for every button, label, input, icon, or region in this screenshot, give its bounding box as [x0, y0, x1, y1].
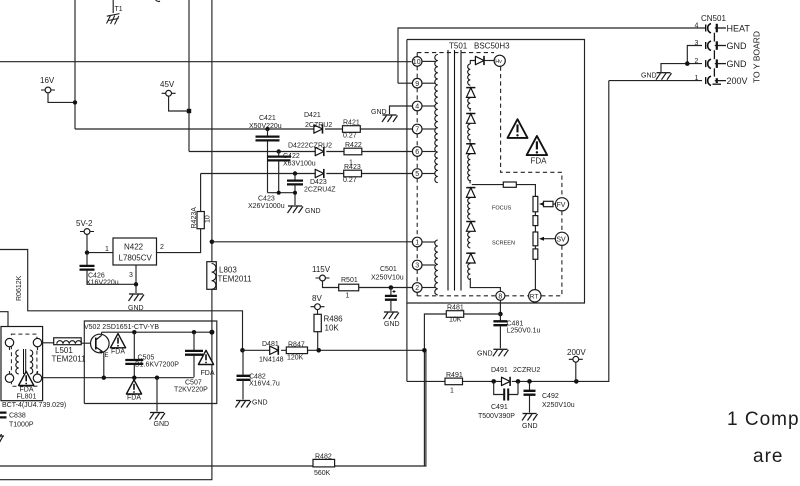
node dots R491 row [491, 379, 578, 384]
connector pin4 [695, 23, 751, 34]
winding secondary s6 [468, 232, 471, 248]
svg-text:1: 1 [450, 388, 454, 395]
wire 5V-2 down [87, 234, 113, 252]
node junction pin3-pin2 [685, 61, 690, 66]
node junction C501 [389, 285, 394, 290]
resistor divider r1 [533, 196, 538, 211]
svg-text:T1: T1 [115, 6, 123, 13]
svg-text:4: 4 [415, 104, 419, 111]
svg-text:X250V10u: X250V10u [542, 402, 575, 409]
svg-text:X16V4.7u: X16V4.7u [249, 381, 280, 388]
node HV [494, 55, 505, 66]
wire line350 [243, 349, 425, 351]
svg-text:45V: 45V [160, 80, 175, 89]
svg-text:GND: GND [477, 351, 493, 358]
svg-text:8: 8 [498, 293, 502, 300]
ground pin4 [371, 109, 398, 122]
resistor R481 [446, 305, 464, 324]
pin 6 [412, 147, 435, 157]
svg-text:R481: R481 [447, 305, 464, 312]
ground C492 [522, 414, 538, 431]
capacitor C421 [249, 115, 282, 193]
svg-text:115V: 115V [312, 265, 331, 274]
wire top horizontal rail to pin 10 [0, 61, 412, 63]
diode HV rectifier [475, 56, 484, 65]
svg-text:T500V390P: T500V390P [478, 413, 515, 420]
inductor L501 [52, 338, 87, 364]
svg-text:FDA: FDA [531, 157, 548, 166]
node junction pin8 [498, 312, 503, 317]
wire to SV [544, 238, 555, 240]
svg-text:R0612K: R0612K [16, 275, 23, 301]
node junction line350 right [422, 348, 427, 353]
wire pin9 stub [398, 82, 412, 84]
svg-text:C492: C492 [542, 393, 559, 400]
svg-text:10K: 10K [325, 324, 340, 333]
svg-text:8V: 8V [312, 294, 322, 303]
warning triangle big2 FDA [527, 136, 548, 166]
svg-text:10: 10 [205, 215, 212, 223]
svg-text:C491: C491 [491, 404, 508, 411]
svg-text:GND: GND [154, 421, 170, 428]
node junction pin3 [134, 282, 138, 286]
svg-text:R501: R501 [341, 277, 358, 284]
wire R501 to pin2 [359, 287, 413, 289]
svg-text:N422: N422 [124, 243, 144, 252]
capacitor C423 [248, 171, 303, 210]
svg-text:T501: T501 [449, 42, 468, 51]
connector pin1 [609, 75, 748, 86]
svg-text:GND: GND [727, 41, 748, 51]
winding secondary s3 [468, 124, 471, 143]
svg-text:C422: C422 [283, 153, 300, 160]
svg-text:X250V10u: X250V10u [371, 275, 404, 282]
svg-text:X50V220u: X50V220u [249, 123, 282, 130]
wire bus 241.8 to pin1 [212, 241, 413, 243]
svg-text:FDA: FDA [201, 370, 215, 377]
svg-text:HEAT: HEAT [727, 24, 751, 34]
inductor L803 [207, 262, 252, 290]
svg-text:are: are [753, 446, 783, 467]
svg-text:L250V0.1u: L250V0.1u [507, 328, 541, 335]
svg-text:B1.6KV7200P: B1.6KV7200P [135, 362, 179, 369]
resistor focus series [503, 182, 516, 187]
node junction R486 [316, 348, 321, 353]
svg-text:R423: R423 [344, 164, 361, 171]
resistor divider r4 [533, 249, 538, 259]
svg-text:R491: R491 [446, 372, 463, 379]
svg-text:R482: R482 [315, 454, 332, 461]
svg-text:200V: 200V [567, 348, 586, 357]
svg-text:4: 4 [695, 23, 699, 30]
svg-text:C421: C421 [259, 115, 276, 122]
wire 115V to R501 [323, 281, 339, 288]
capacitor C505 [125, 332, 179, 377]
wire secondary top [470, 61, 475, 65]
node 115V test point [312, 265, 331, 281]
node 8V test point [311, 294, 325, 310]
svg-text:E: E [105, 353, 109, 359]
resistor FV tap [544, 201, 554, 206]
winding secondary [468, 64, 471, 85]
connector pin2 [661, 58, 747, 72]
svg-text:C482: C482 [249, 374, 266, 381]
capacitor C507 [174, 332, 208, 393]
box T501 outer [407, 40, 585, 304]
connector pin3 [687, 40, 747, 64]
svg-text:1: 1 [346, 293, 350, 300]
svg-text:SCREEN: SCREEN [492, 241, 515, 247]
capacitor C492 [524, 381, 575, 412]
svg-text:0.27: 0.27 [343, 133, 357, 140]
resistor R486 [314, 310, 343, 351]
wire bottom line A [0, 350, 426, 466]
svg-text:GND: GND [522, 423, 538, 430]
wire focus tap [472, 184, 504, 186]
transistor V502 [91, 334, 110, 359]
diode D422 [315, 147, 324, 156]
wire divider 2-3 [534, 226, 536, 232]
wire fragment top edge [156, 0, 161, 2]
diode secondary 2 [466, 114, 475, 124]
node junction 5V-2 [85, 250, 89, 254]
resistor R482 [313, 454, 335, 478]
transformer FL801 [1, 327, 43, 401]
ground V502 box [150, 413, 170, 429]
node junction 45V [187, 109, 191, 113]
svg-text:X26V1000u: X26V1000u [248, 203, 285, 210]
warning triangle V502 [110, 334, 125, 356]
svg-text:CN501: CN501 [701, 14, 726, 23]
wire W1 left loop [0, 250, 243, 351]
wire to HV [484, 60, 494, 62]
transformer core [448, 50, 461, 291]
wire W2 left to FL801 [0, 312, 8, 339]
svg-text:GND: GND [384, 321, 400, 328]
node junction D481 [240, 348, 245, 353]
svg-text:2CZRU2: 2CZRU2 [305, 122, 332, 129]
connector spine [713, 33, 715, 77]
svg-text:16V: 16V [40, 76, 55, 85]
winding primary upper [435, 55, 438, 183]
resistor R491 [445, 372, 463, 395]
wire FL801 to L501 [42, 342, 54, 344]
diode D491 [491, 367, 540, 386]
ground C501 [383, 312, 399, 328]
pin 10 [412, 57, 435, 67]
svg-text:R486: R486 [324, 315, 344, 324]
node junction 16V [73, 100, 77, 104]
svg-text:SV: SV [556, 237, 566, 244]
winding primary lower [435, 240, 438, 295]
winding secondary s7 [468, 264, 471, 280]
wire 16V to x75 rail [48, 93, 75, 103]
svg-text:3: 3 [415, 263, 419, 270]
node rail dots [132, 330, 214, 335]
wire N422 pin3 [135, 265, 137, 293]
dashed FV-SV [561, 211, 563, 232]
svg-text:C507: C507 [185, 380, 202, 387]
svg-text:2: 2 [160, 244, 164, 251]
svg-text:GND: GND [727, 59, 748, 69]
svg-text:0.27: 0.27 [343, 177, 357, 184]
svg-text:D481: D481 [262, 341, 279, 348]
regulator N422 L7805CV [105, 238, 164, 279]
svg-text:C423: C423 [258, 196, 275, 203]
pin 1 [412, 237, 435, 247]
svg-text:C481: C481 [507, 321, 524, 328]
wire box top rail [102, 331, 212, 333]
capacitor C426 [80, 253, 137, 287]
svg-text:T2KV220P: T2KV220P [174, 387, 208, 394]
svg-text:TEM2011: TEM2011 [52, 355, 87, 364]
svg-text:560K: 560K [314, 470, 331, 477]
resistor R423 [343, 164, 362, 184]
node 200V test point [567, 348, 586, 362]
svg-text:Hv: Hv [495, 59, 502, 65]
svg-text:D491: D491 [491, 367, 508, 374]
winding secondary s4 [468, 154, 471, 183]
wire row1 129 [75, 128, 412, 130]
diode secondary 5 [466, 222, 475, 232]
svg-text:GND: GND [641, 73, 657, 80]
svg-text:3: 3 [695, 40, 699, 47]
svg-text:1: 1 [695, 75, 699, 82]
svg-text:FDA: FDA [127, 395, 141, 402]
svg-text:TO Y BOARD: TO Y BOARD [752, 31, 762, 83]
warning triangle big1 [507, 119, 527, 138]
ground connector [641, 73, 672, 80]
wire divider 1-2 [534, 212, 536, 216]
svg-text:2: 2 [695, 58, 699, 65]
svg-text:D4222CZRU2: D4222CZRU2 [288, 143, 332, 150]
dashed HV path [501, 67, 562, 198]
pin 7 [412, 124, 435, 134]
node RT [529, 290, 541, 302]
diode secondary 1 [466, 88, 475, 98]
node FV [555, 198, 568, 211]
wire row2 151.5 [189, 151, 412, 153]
svg-text:R422: R422 [345, 142, 362, 149]
svg-text:GND: GND [252, 400, 268, 407]
wire collector [101, 332, 103, 335]
svg-text:GND: GND [305, 208, 321, 215]
svg-text:R847: R847 [288, 342, 305, 349]
capacitor C481 [493, 314, 540, 348]
ground T1 [107, 0, 123, 25]
box V502 block [84, 321, 217, 404]
svg-text:V502 2SD1651-CTV-YB: V502 2SD1651-CTV-YB [84, 324, 159, 331]
svg-text:R421: R421 [343, 120, 360, 127]
svg-text:10K: 10K [449, 317, 462, 324]
wire row3 173.5 [201, 173, 413, 175]
dashed pin column [416, 53, 418, 283]
svg-text:L803: L803 [219, 266, 237, 275]
svg-text:1N4148: 1N4148 [259, 357, 284, 364]
svg-text:1: 1 [415, 240, 419, 247]
wire tap to divider [516, 185, 535, 197]
wire vertical x189 [188, 0, 190, 152]
svg-text:10: 10 [413, 59, 421, 66]
dashed SV down [561, 246, 563, 296]
svg-text:9: 9 [415, 81, 419, 88]
wire to FV [553, 203, 555, 205]
wire vertical left x75 [74, 0, 76, 129]
svg-text:FDA: FDA [20, 387, 34, 394]
arrow SV tap [539, 237, 544, 241]
wire R481 row [424, 314, 500, 466]
diode D421 [304, 112, 323, 134]
node bottom rail dots [102, 376, 160, 380]
dashed bottom row [417, 295, 562, 297]
wire N422 pin2 to R423A [157, 229, 201, 253]
svg-text:FL801: FL801 [17, 394, 37, 401]
wire box left extension [406, 303, 408, 381]
winding secondary s5 [468, 198, 471, 219]
svg-text:C501: C501 [380, 266, 397, 273]
wire emitter [103, 353, 105, 378]
pin 9 [412, 78, 435, 88]
resistor divider r2 [533, 216, 538, 226]
node pin 8 [496, 291, 505, 300]
svg-text:7: 7 [415, 127, 419, 134]
wire 200V down [575, 362, 577, 381]
ground C481 [477, 349, 508, 357]
wire divider to RT [534, 259, 536, 290]
wire box bottom rail [43, 377, 194, 379]
svg-text:1: 1 [105, 246, 109, 253]
svg-text:FV: FV [557, 202, 566, 209]
warning triangle C507 [198, 350, 214, 377]
capacitor C501 [371, 266, 404, 311]
winding secondary s2 [468, 98, 471, 111]
wire 45V to x189 [169, 96, 189, 111]
node 16V test point [40, 76, 55, 93]
svg-text:R423A: R423A [191, 207, 198, 229]
svg-text:3: 3 [129, 272, 133, 279]
svg-text:120K: 120K [287, 355, 304, 362]
diode D481 [259, 341, 284, 364]
node 45V test point [160, 80, 176, 96]
wire cap bottom bus [268, 193, 296, 205]
diode secondary 3 [466, 144, 475, 154]
svg-text:TEM2011: TEM2011 [218, 275, 253, 284]
pin 2 [412, 283, 435, 293]
pin 5 [412, 169, 435, 179]
svg-text:5V-2: 5V-2 [76, 219, 93, 228]
ground left edge [0, 434, 4, 445]
resistor R501 [339, 277, 359, 300]
svg-text:L7805CV: L7805CV [119, 254, 153, 263]
dashed transformer box top [417, 52, 494, 54]
capacitor C838 [0, 413, 34, 429]
pin 3 [412, 260, 435, 270]
svg-text:2: 2 [415, 285, 419, 292]
svg-text:C505: C505 [138, 355, 155, 362]
svg-text:1 Comp: 1 Comp [727, 409, 800, 430]
resistor R423A [191, 207, 211, 229]
resistor R421 [343, 120, 361, 140]
wire gnd drop [156, 378, 158, 412]
svg-text:C838: C838 [9, 413, 26, 420]
svg-text:RT: RT [530, 293, 539, 300]
ground C482 [236, 400, 268, 408]
ground N422 [128, 294, 144, 312]
wire pin8 down [499, 300, 501, 314]
capacitor C491 [478, 381, 518, 420]
arrow FV tap [539, 202, 544, 206]
wire divider 3-4 [534, 246, 536, 249]
svg-text:FDA: FDA [111, 349, 125, 356]
svg-text:GND: GND [371, 109, 387, 116]
svg-text:BSC50H3: BSC50H3 [474, 42, 510, 51]
capacitor C422 [267, 149, 316, 192]
resistor R847 [286, 342, 307, 362]
wire pin4 gnd [390, 106, 413, 114]
wire secondary bottom to pin8 [470, 278, 500, 291]
svg-text:5: 5 [415, 171, 419, 178]
svg-text:FOCUS: FOCUS [492, 206, 512, 212]
svg-text:X16V220u: X16V220u [86, 280, 119, 287]
warning triangle lower [126, 380, 141, 402]
wire R491 row [407, 81, 609, 382]
svg-text:200V: 200V [727, 76, 748, 86]
capacitor C482 [237, 350, 280, 399]
diode secondary 6 [466, 253, 475, 263]
resistor R422 [344, 142, 362, 167]
wire base [81, 342, 91, 344]
node bus dots [277, 191, 297, 195]
svg-text:C426: C426 [88, 273, 105, 280]
diode secondary 4 [466, 188, 475, 198]
node bus junction x212 [210, 240, 215, 245]
svg-text:6: 6 [415, 149, 419, 156]
svg-text:T1000P: T1000P [9, 422, 34, 429]
wire R423A up to row3 [200, 174, 202, 212]
svg-text:BCT-4(JU4.739.029): BCT-4(JU4.739.029) [2, 402, 66, 409]
svg-text:X63V100u: X63V100u [283, 161, 316, 168]
warning triangle FL801 [17, 371, 37, 400]
diode D423 [304, 169, 336, 194]
node 5V-2 test point [76, 219, 94, 234]
node SV [555, 232, 568, 245]
svg-text:2CZRU2: 2CZRU2 [513, 367, 540, 374]
svg-text:D423: D423 [310, 179, 327, 186]
wire pin2 dash stub [416, 292, 418, 296]
wire vertical x212 main [0, 0, 212, 480]
pin 4 [412, 101, 435, 111]
resistor divider r3 [533, 232, 538, 246]
wire heater line [398, 28, 706, 83]
ground C423 [288, 206, 321, 215]
svg-text:2CZRU4Z: 2CZRU4Z [304, 187, 336, 194]
svg-text:D421: D421 [304, 112, 321, 119]
